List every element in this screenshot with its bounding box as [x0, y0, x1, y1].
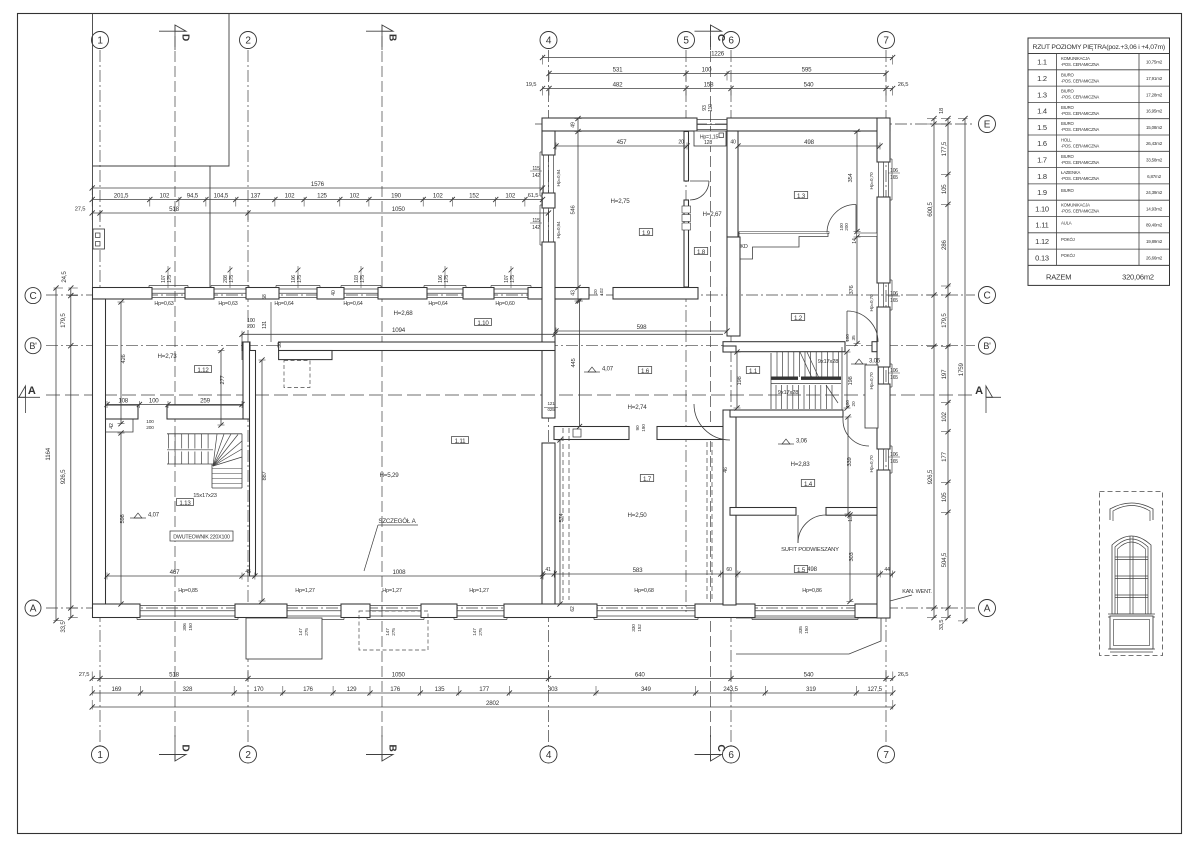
svg-text:Hp=0,63: Hp=0,63 [218, 301, 237, 307]
bottom dimension chain detailed [92, 692, 893, 694]
svg-text:-POS. CERAMICZNA: -POS. CERAMICZNA [1061, 95, 1099, 100]
svg-text:1008: 1008 [392, 569, 406, 576]
svg-text:RAZEM: RAZEM [1046, 272, 1071, 281]
svg-text:127,5: 127,5 [867, 686, 882, 693]
svg-text:1.9: 1.9 [1037, 188, 1047, 197]
room 1.12 label [195, 366, 212, 373]
svg-text:41: 41 [545, 567, 551, 573]
svg-text:H=2,75: H=2,75 [611, 198, 631, 205]
svg-text:46: 46 [723, 467, 729, 473]
svg-text:H=2,68: H=2,68 [394, 310, 414, 317]
svg-text:45: 45 [245, 569, 251, 575]
svg-text:Hp=0,94: Hp=0,94 [556, 221, 562, 238]
svg-text:14: 14 [852, 238, 858, 244]
axis D section line [174, 36, 176, 738]
section flag C bottom [695, 754, 722, 756]
dim 277 [220, 351, 222, 426]
svg-text:135: 135 [435, 686, 445, 693]
svg-text:RZUT POZIOMY PIĘTRA(poz.+3,06: RZUT POZIOMY PIĘTRA(poz.+3,06 i +4,07m) [1033, 44, 1165, 51]
north wall of aula 1.11 [279, 351, 332, 360]
svg-text:0.13: 0.13 [1035, 253, 1049, 262]
svg-text:26,43m2: 26,43m2 [1146, 141, 1163, 146]
svg-text:POKÓJ: POKÓJ [1061, 253, 1075, 258]
dim 354 [856, 132, 858, 232]
svg-text:152: 152 [637, 624, 643, 632]
svg-text:598: 598 [120, 514, 126, 523]
svg-text:A: A [30, 603, 37, 614]
dims 108 100 259 row [107, 404, 242, 406]
room 1.2 label [791, 314, 804, 321]
shaft boxes in wall of 1.8 [682, 206, 691, 213]
svg-text:147: 147 [385, 628, 391, 636]
svg-text:-POS. CERAMICZNA: -POS. CERAMICZNA [1061, 144, 1099, 149]
svg-text:C: C [715, 34, 726, 41]
svg-text:102: 102 [941, 412, 948, 422]
dim 457 in room 1.9 [556, 145, 687, 147]
window detail leader dashed box [1100, 492, 1163, 656]
svg-text:303: 303 [548, 686, 558, 693]
svg-text:110: 110 [708, 104, 714, 112]
grid bubble 4 bottom [540, 746, 557, 763]
svg-text:306: 306 [182, 623, 188, 631]
svg-text:44: 44 [884, 567, 890, 573]
svg-text:1.4: 1.4 [804, 481, 813, 488]
svg-text:7: 7 [883, 750, 889, 761]
svg-text:15x17x23: 15x17x23 [193, 493, 217, 499]
svg-text:SZCZEGÓŁ A: SZCZEGÓŁ A [378, 518, 416, 525]
dim 303 [849, 515, 851, 602]
dim 198 left of stairs [736, 352, 738, 408]
svg-text:1.10: 1.10 [477, 320, 489, 327]
north wall of mid block on axis C [93, 288, 153, 300]
window detail sill [1108, 613, 1155, 615]
door arc room 1.4 to 1.5 [798, 515, 826, 543]
svg-text:1.8: 1.8 [1037, 172, 1047, 181]
svg-text:6,87m2: 6,87m2 [1147, 174, 1162, 179]
dim 498 in room 1.3 [738, 145, 880, 147]
svg-text:102: 102 [159, 192, 169, 199]
svg-text:457: 457 [617, 139, 627, 146]
svg-text:277: 277 [220, 375, 226, 384]
svg-text:1094: 1094 [392, 327, 406, 334]
svg-text:H=2,67: H=2,67 [703, 211, 723, 218]
svg-text:330: 330 [631, 624, 637, 632]
svg-text:BIURO: BIURO [1061, 188, 1074, 193]
svg-text:125: 125 [317, 192, 327, 199]
axis C horizontal grid line [46, 294, 975, 296]
wall on axis B' east part (stairwell north) [723, 342, 845, 352]
svg-text:1164: 1164 [45, 447, 52, 460]
dimension chain of window axes [92, 199, 542, 201]
svg-text:40: 40 [331, 290, 337, 296]
door arc corridor 1.8 [690, 181, 709, 200]
svg-text:100: 100 [845, 334, 851, 342]
svg-text:275: 275 [391, 628, 397, 636]
north wall of NE block [542, 118, 697, 131]
dim 598 room 1.13 [120, 433, 122, 604]
grid bubble 1 top [92, 32, 109, 49]
svg-text:6: 6 [728, 35, 734, 46]
svg-text:339: 339 [847, 457, 853, 466]
svg-text:376: 376 [849, 285, 855, 294]
level mark +3,06 room 1.4 [782, 439, 790, 444]
terrace slab below south wall [246, 618, 322, 659]
dim line 887 vertical [261, 360, 263, 601]
svg-text:170: 170 [254, 686, 264, 693]
svg-text:15,08m2: 15,08m2 [1146, 125, 1163, 130]
svg-text:200: 200 [247, 324, 255, 330]
svg-text:1.4: 1.4 [1037, 107, 1047, 116]
dimension chain 531 100 595 [549, 73, 886, 75]
svg-text:27,5: 27,5 [79, 672, 89, 678]
svg-text:43: 43 [571, 290, 577, 296]
svg-text:Hp=1,27: Hp=1,27 [469, 588, 489, 594]
svg-text:1.1: 1.1 [749, 368, 758, 375]
left stair winder fan [213, 434, 217, 466]
svg-text:1.6: 1.6 [1037, 139, 1047, 148]
svg-text:D: D [180, 744, 191, 751]
svg-text:B': B' [29, 341, 37, 351]
svg-text:-POS. CERAMICZNA: -POS. CERAMICZNA [1061, 209, 1099, 214]
svg-text:150: 150 [188, 623, 194, 631]
svg-text:335: 335 [798, 626, 804, 634]
section flag D bottom [159, 754, 186, 756]
svg-text:90: 90 [635, 425, 641, 430]
grid bubble A left [25, 600, 41, 616]
svg-text:5: 5 [683, 35, 689, 46]
svg-text:33,5: 33,5 [60, 621, 67, 633]
dim 598 hall 1.6 [556, 330, 727, 332]
svg-text:179,5: 179,5 [60, 313, 67, 328]
svg-text:Hp=0,64: Hp=0,64 [428, 301, 447, 307]
svg-text:B: B [387, 34, 398, 41]
svg-text:165: 165 [890, 175, 898, 181]
stair flight cut lines upper [800, 352, 812, 378]
svg-text:1.3: 1.3 [1037, 90, 1047, 99]
dim 339 [847, 417, 849, 514]
svg-text:319: 319 [806, 686, 816, 693]
grid bubble 7 bottom [878, 746, 895, 763]
axis 1 grid line [99, 50, 101, 748]
window detail arch head [1110, 503, 1153, 520]
svg-text:Hp=0,64: Hp=0,64 [343, 301, 362, 307]
legend table frame [1028, 38, 1170, 285]
svg-text:KOMUNIKACJA: KOMUNIKACJA [1061, 56, 1090, 61]
svg-text:426: 426 [121, 354, 127, 363]
section flag B bottom [366, 754, 393, 756]
svg-text:19,89m2: 19,89m2 [1146, 239, 1163, 244]
svg-text:100: 100 [845, 400, 851, 408]
east exterior wall [877, 118, 890, 162]
svg-text:598: 598 [637, 324, 647, 331]
svg-text:100: 100 [702, 66, 712, 73]
svg-text:C: C [29, 291, 36, 302]
room 1.3 label [794, 192, 807, 199]
svg-text:158: 158 [704, 81, 714, 88]
level mark +3,06 stairwell [855, 359, 863, 364]
svg-text:574: 574 [559, 512, 565, 522]
svg-text:4,07: 4,07 [602, 367, 614, 373]
svg-text:100: 100 [146, 419, 154, 425]
svg-text:20: 20 [851, 401, 857, 406]
svg-text:40: 40 [730, 140, 736, 146]
door jamb line corridor 1.10 [270, 302, 272, 342]
svg-text:165: 165 [890, 298, 898, 304]
right dimension chain segments [947, 119, 949, 618]
svg-text:60: 60 [726, 567, 732, 573]
svg-text:1226: 1226 [711, 50, 725, 57]
bottom dimension chain 2802 [92, 706, 893, 708]
door arc into room 1.4 [843, 420, 869, 446]
svg-text:179,5: 179,5 [941, 313, 948, 328]
svg-text:H=2,83: H=2,83 [791, 461, 811, 468]
west exterior wall [93, 299, 106, 605]
svg-text:49: 49 [571, 122, 577, 128]
svg-text:33,5: 33,5 [939, 620, 945, 630]
dimension chain 518 1050 [92, 212, 548, 214]
pilaster on axis 1 wall [93, 229, 105, 249]
svg-text:C: C [715, 744, 726, 751]
svg-text:518: 518 [169, 206, 179, 213]
svg-text:AULA: AULA [1061, 221, 1072, 226]
svg-text:4: 4 [546, 750, 552, 761]
window detail lower panel [1110, 616, 1153, 649]
grid bubble C right [979, 287, 996, 304]
grid bubble 2 top [240, 32, 257, 49]
grid bubble 2 bottom [240, 746, 257, 763]
svg-text:482: 482 [613, 81, 623, 88]
svg-text:27,5: 27,5 [75, 207, 85, 213]
svg-text:SUFIT PODWIESZANY: SUFIT PODWIESZANY [781, 547, 839, 553]
stair lower flight treads [775, 385, 777, 409]
svg-text:-POS. CERAMICZNA: -POS. CERAMICZNA [1061, 160, 1099, 165]
axis B section line [381, 36, 383, 738]
svg-text:498: 498 [807, 566, 817, 573]
svg-text:2: 2 [245, 750, 251, 761]
svg-text:102: 102 [599, 288, 605, 296]
axis E grid line [535, 123, 975, 125]
svg-text:42: 42 [109, 423, 115, 429]
room 1.8 label [694, 248, 707, 255]
svg-text:KOMUNIKACJA: KOMUNIKACJA [1061, 203, 1090, 208]
svg-text:62: 62 [570, 606, 576, 612]
svg-text:531: 531 [613, 66, 623, 73]
svg-text:102: 102 [285, 192, 295, 199]
grid bubble 6 top [723, 32, 740, 49]
svg-text:131: 131 [262, 321, 268, 329]
neighbour building outline top-left [92, 14, 94, 294]
svg-text:26,5: 26,5 [898, 82, 908, 88]
step wall at KD shaft [739, 232, 828, 259]
window detail frame with arch [1112, 536, 1151, 614]
svg-text:467: 467 [170, 569, 180, 576]
south exterior wall [93, 604, 141, 618]
svg-text:3,06: 3,06 [796, 439, 808, 445]
svg-text:24,5: 24,5 [61, 271, 68, 283]
svg-text:HOLL: HOLL [1061, 138, 1072, 143]
section flag B top [366, 30, 393, 32]
svg-text:147: 147 [298, 628, 304, 636]
svg-text:1.9: 1.9 [642, 230, 651, 237]
stair handrail dark bars [771, 377, 798, 380]
svg-text:20: 20 [678, 140, 684, 146]
svg-text:1.12: 1.12 [1035, 237, 1049, 246]
left dimension chain outer 1164 [55, 288, 57, 621]
svg-text:1576: 1576 [311, 181, 325, 188]
svg-text:354: 354 [848, 172, 854, 182]
svg-text:198: 198 [848, 376, 854, 385]
wall between rooms 1.4 and 1.5 [730, 508, 796, 516]
svg-text:102: 102 [505, 192, 515, 199]
hall 1.6 label [638, 367, 651, 374]
axis 4 grid line [548, 50, 550, 748]
svg-text:D: D [180, 34, 191, 41]
grid bubble 5 top [678, 32, 695, 49]
svg-text:BIURO: BIURO [1061, 72, 1074, 77]
svg-text:105: 105 [941, 492, 948, 502]
svg-text:197: 197 [941, 369, 948, 379]
svg-text:13: 13 [848, 516, 854, 522]
svg-text:1.10: 1.10 [1035, 204, 1049, 213]
svg-text:1.5: 1.5 [1037, 123, 1047, 132]
svg-text:H=2,73: H=2,73 [158, 353, 178, 360]
chimney niche on east wall [865, 365, 878, 428]
svg-text:540: 540 [804, 81, 814, 88]
room 1.5 label [794, 566, 807, 573]
aula 1.11 label [452, 437, 469, 444]
svg-text:Hp=0,70: Hp=0,70 [869, 372, 875, 389]
svg-text:128: 128 [704, 140, 712, 146]
svg-text:150: 150 [804, 626, 810, 634]
legend table RAZEM row [1028, 264, 1170, 266]
svg-text:926,5: 926,5 [927, 469, 934, 484]
dim 445 [579, 301, 581, 427]
svg-text:1.2: 1.2 [1037, 74, 1047, 83]
section line A-A [46, 394, 975, 396]
svg-text:1.7: 1.7 [643, 476, 652, 483]
svg-text:-POS. CERAMICZNA: -POS. CERAMICZNA [1061, 62, 1099, 67]
svg-text:35: 35 [851, 335, 857, 340]
svg-text:887: 887 [262, 471, 268, 480]
svg-text:137: 137 [250, 192, 260, 199]
svg-text:61,5: 61,5 [528, 193, 538, 199]
north wall segment between hall and rooms 1.9 1.8 [555, 288, 589, 300]
svg-text:Hp=1,27: Hp=1,27 [382, 588, 402, 594]
grid bubble B' left [25, 338, 41, 354]
stair landing edge [770, 353, 772, 409]
svg-text:201,5: 201,5 [114, 192, 129, 199]
svg-text:177: 177 [941, 451, 948, 461]
west wall of NE block / interior wall axis 4 [542, 131, 555, 155]
svg-text:190: 190 [391, 192, 401, 199]
left dimension chain inner [70, 288, 72, 618]
svg-text:7: 7 [883, 35, 889, 46]
stairwell south wall / room 1.4 north [730, 410, 843, 417]
bottom dimension chain 518 1050 640 540 [92, 678, 893, 680]
svg-text:275: 275 [304, 628, 310, 636]
south wall of room 1.12 [106, 405, 139, 419]
svg-text:200: 200 [844, 223, 850, 231]
svg-text:303: 303 [849, 552, 855, 561]
svg-text:9x17x28: 9x17x28 [818, 359, 839, 365]
svg-text:147: 147 [472, 628, 478, 636]
level mark +4,07 room 1.13 [134, 513, 142, 518]
corridor 1.1 label [746, 367, 759, 374]
svg-text:121: 121 [547, 401, 555, 406]
svg-text:89,40m2: 89,40m2 [1146, 223, 1163, 228]
wall between hall/room 1.7 and stairwell/rooms 1.4 1.5 [723, 346, 736, 352]
svg-text:Hp=0,94: Hp=0,94 [556, 169, 562, 186]
svg-text:B: B [387, 744, 398, 751]
svg-text:243,5: 243,5 [723, 686, 738, 693]
svg-text:2802: 2802 [486, 700, 500, 707]
svg-text:A: A [975, 385, 983, 397]
svg-text:16,95m2: 16,95m2 [1146, 109, 1163, 114]
svg-text:26,5: 26,5 [898, 672, 908, 678]
west wall of aula 1.11 [250, 351, 256, 577]
svg-text:1.12: 1.12 [197, 367, 209, 374]
dim 574 [559, 440, 561, 604]
svg-text:33,58m2: 33,58m2 [1146, 157, 1163, 162]
svg-text:1.3: 1.3 [797, 193, 806, 200]
right dimension chain outer totals [964, 119, 966, 621]
room 1.7 label [640, 475, 653, 482]
svg-text:152: 152 [469, 192, 479, 199]
svg-text:Hp=0,70: Hp=0,70 [869, 172, 875, 189]
svg-text:595: 595 [802, 66, 812, 73]
svg-text:2: 2 [245, 35, 251, 46]
wall between room 1.9 and corridor 1.8 [684, 132, 689, 182]
west wall jog [106, 419, 134, 432]
svg-text:H=2,74: H=2,74 [628, 404, 648, 411]
grid bubble 6 bottom [723, 746, 740, 763]
svg-text:20: 20 [593, 289, 599, 294]
svg-text:10,75m2: 10,75m2 [1146, 60, 1163, 65]
svg-text:129: 129 [347, 686, 357, 693]
svg-text:Hp=0,68: Hp=0,68 [634, 588, 654, 594]
svg-text:1.7: 1.7 [1037, 155, 1047, 164]
svg-text:BIURO: BIURO [1061, 89, 1074, 94]
wall below room 1.3 with door to 1.3 [739, 232, 829, 234]
svg-text:1: 1 [97, 750, 103, 761]
grid bubble A right [979, 600, 996, 617]
axis 2 grid line [247, 50, 249, 748]
svg-text:DWUTEOWNIK 220X100: DWUTEOWNIK 220X100 [173, 535, 230, 541]
right dimension chain 600,5 926,5 504,5 [933, 119, 935, 618]
legend table rows [1056, 54, 1058, 266]
svg-text:105: 105 [941, 184, 948, 194]
svg-text:102: 102 [433, 192, 443, 199]
svg-text:Hp=0,63: Hp=0,63 [154, 301, 173, 307]
svg-text:108: 108 [118, 397, 128, 404]
bottom interior dim row west [107, 575, 543, 577]
svg-text:Hp=0,70: Hp=0,70 [869, 455, 875, 472]
stair upper flight treads [776, 352, 778, 377]
svg-text:583: 583 [633, 567, 643, 574]
room 1.4 label [801, 480, 814, 487]
dim 376 [856, 237, 858, 344]
axis B' grid line [46, 345, 975, 347]
svg-text:H=2,50: H=2,50 [628, 512, 648, 519]
section flag C top [695, 30, 722, 32]
svg-text:926,5: 926,5 [60, 469, 67, 484]
svg-text:349: 349 [641, 686, 651, 693]
svg-text:E: E [984, 119, 991, 130]
axis C section line [710, 36, 712, 738]
svg-text:Hp=0,70: Hp=0,70 [869, 294, 875, 311]
svg-text:17,91m2: 17,91m2 [1146, 76, 1163, 81]
door arc hall to stair corridor 1.1 [694, 404, 730, 440]
